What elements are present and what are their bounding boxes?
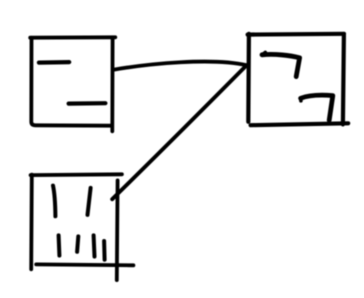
tick T5 in B3 [92,235,97,256]
box B3 bottom: left edge [29,175,33,270]
dash D1 inside B1 [39,60,69,65]
glyph seven S2 in B2 [301,95,333,120]
box B3 bottom: right edge (overshoots top and bottom) [115,180,120,280]
tick T1 in B3 [53,186,55,217]
tick T2 in B3 [88,188,91,215]
glyph seven S1 in B2 [262,54,300,76]
box B1 top-left: top edge [30,35,115,39]
box B1 top-left: left and bottom edges [31,38,111,126]
tick T3 in B3 [57,235,62,255]
box B2 top-right: right edge [343,34,344,124]
wire W2 diagonal B2 to B3 [112,65,246,199]
box B2 top-right: bottom edge (overshoots right) [251,123,349,125]
box B1 top-left: right edge (overshoots bottom) [110,38,114,132]
box B3 bottom: top edge [31,172,122,177]
tick T6 in B3 [102,241,107,260]
tick T4 in B3 [77,236,78,251]
wire W1 curved connector B1 to B2 [113,62,246,70]
glyph seven S2 start hook [299,98,303,100]
box B2 top-right: top edge [248,32,344,37]
box B3 bottom: bottom edge (overshoots right) [36,262,133,267]
dash D2 inside B1 [69,101,106,106]
box B2 top-right: left edge [246,34,251,122]
glyph seven S1 start tick [262,52,265,54]
